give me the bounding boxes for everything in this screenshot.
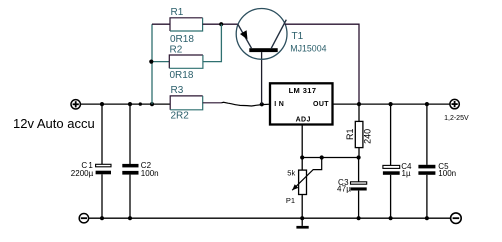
svg-text:P1: P1 — [286, 196, 295, 205]
wire C5 bottom lead — [426, 175, 428, 218]
wire pot top lead — [301, 158, 303, 171]
output terminal minus — [451, 213, 462, 224]
node C4 bottom tap — [389, 216, 393, 220]
wire C2 top lead — [129, 104, 131, 164]
wire R1 left lead — [152, 23, 170, 25]
wire input rail — [80, 103, 170, 105]
node C2 tap on rail — [128, 102, 132, 106]
node C3 bottom tap — [357, 216, 361, 220]
wire ADJ row — [302, 157, 358, 159]
wire C1 bottom lead — [101, 174, 103, 218]
wire R3 to LM317 IN squiggle — [222, 102, 271, 106]
svg-text:1,2-25V: 1,2-25V — [444, 115, 469, 122]
wire R2 right lead — [203, 24, 222, 61]
svg-text:2R2: 2R2 — [171, 110, 190, 121]
svg-text:T1: T1 — [292, 31, 304, 42]
svg-text:1µ: 1µ — [402, 169, 411, 178]
node C1 bottom tap — [100, 216, 104, 220]
svg-text:240: 240 — [363, 129, 373, 144]
node C2 bottom tap — [128, 216, 132, 220]
output terminal plus — [444, 99, 469, 121]
svg-text:100n: 100n — [438, 169, 456, 178]
svg-text:ADJ: ADJ — [296, 117, 311, 124]
wire pot bottom lead — [301, 195, 303, 219]
wire C4 bottom lead — [390, 175, 392, 218]
node C5 bottom tap — [425, 216, 429, 220]
wire transistor base lead — [261, 52, 263, 104]
node ADJ pot junction — [300, 155, 304, 159]
svg-text:R1: R1 — [171, 7, 184, 18]
resistor R1 — [170, 7, 203, 45]
wire collector to output rail — [285, 24, 359, 104]
svg-text:R2: R2 — [170, 44, 183, 55]
transistor T1 — [236, 9, 326, 60]
svg-text:12v Auto accu: 12v Auto accu — [13, 116, 95, 131]
capacitor C1 — [71, 161, 111, 178]
node C5 tap — [425, 102, 429, 106]
ground — [296, 218, 308, 228]
svg-text:R1: R1 — [345, 129, 355, 141]
node base tap at IN — [260, 102, 264, 106]
svg-text:R3: R3 — [171, 85, 184, 96]
node R2 riser tap — [149, 60, 153, 64]
resistor R3 — [170, 85, 203, 121]
potentiometer P1 — [286, 158, 322, 206]
node R1 R2 junction — [219, 22, 223, 26]
wire C5 top lead — [426, 104, 428, 165]
wire bottom rail — [89, 217, 451, 219]
svg-text:47µ: 47µ — [337, 184, 351, 193]
op-amp U1 LM317 regulator — [270, 83, 333, 124]
node wiper junction — [320, 155, 324, 159]
wire R1b bottom lead — [358, 148, 360, 158]
capacitor C5 — [418, 162, 456, 178]
svg-text:2200µ: 2200µ — [71, 169, 94, 178]
svg-text:IN: IN — [274, 101, 286, 108]
resistor R2 — [169, 44, 203, 81]
node pot ground tap — [300, 216, 304, 220]
resistor R1b 240 — [345, 121, 373, 147]
wire teal riser to R1 R2 — [151, 24, 153, 104]
node riser tap on rail — [150, 102, 154, 106]
node R1b C3 junction — [357, 155, 361, 159]
wire C4 top lead — [390, 104, 392, 165]
svg-text:LM 317: LM 317 — [289, 86, 317, 95]
wire C1 top lead — [101, 104, 103, 164]
input terminal plus — [71, 100, 80, 109]
svg-text:100n: 100n — [141, 169, 159, 178]
node stray junction dot — [139, 102, 142, 105]
svg-text:0R18: 0R18 — [170, 34, 194, 45]
wire R1b top lead — [358, 104, 360, 121]
node collector R1b tap — [357, 102, 361, 106]
wire R1 right lead to transistor — [203, 23, 238, 25]
wire C3 top lead — [358, 158, 360, 182]
input terminal minus — [79, 214, 88, 223]
node C4 tap — [389, 102, 393, 106]
capacitor C2 — [122, 161, 158, 178]
wire output rail — [333, 103, 450, 105]
wire C3 bottom lead — [358, 191, 360, 219]
svg-text:OUT: OUT — [313, 101, 329, 108]
svg-text:MJ15004: MJ15004 — [290, 43, 326, 53]
capacitor C3 — [337, 178, 367, 194]
svg-text:5k: 5k — [287, 169, 295, 178]
wire R2 left lead — [152, 61, 169, 63]
wire R3 right lead — [203, 102, 222, 104]
wire ADJ pin lead — [301, 125, 303, 158]
svg-text:0R18: 0R18 — [170, 70, 194, 81]
capacitor C4 — [383, 162, 412, 178]
wire C2 bottom lead — [129, 175, 131, 219]
node C1 tap on rail — [100, 102, 104, 106]
